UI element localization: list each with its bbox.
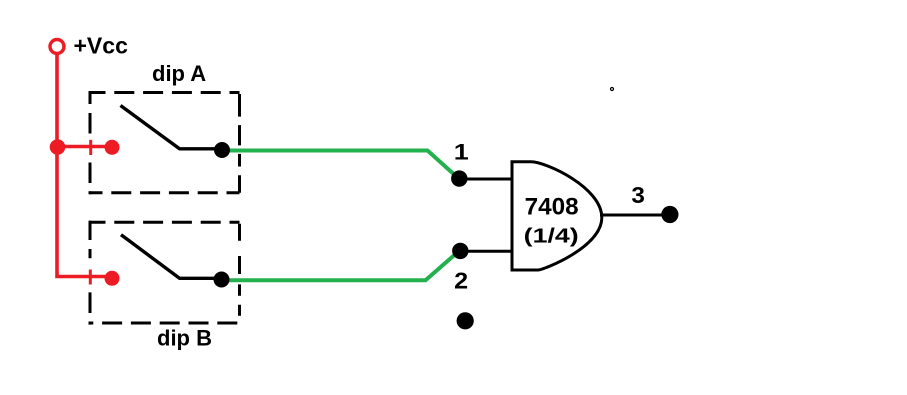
switch SW-A lever [121, 106, 223, 149]
dip A enclosure (dashed box) [89, 91, 240, 194]
node red dot A [105, 140, 120, 155]
svg-text:1: 1 [454, 140, 469, 165]
wire red vertical bus with bottom branch [57, 54, 112, 277]
svg-text:2: 2 [454, 268, 468, 294]
node pin 2 [452, 243, 468, 259]
wire input 1 [459, 178, 513, 181]
wire output 3 [600, 214, 670, 217]
tick red cross B [89, 270, 92, 285]
Vcc terminal (open circle) [50, 40, 64, 54]
svg-text:dip B: dip B [157, 326, 212, 351]
AND gate U1 (7408) body [512, 162, 602, 270]
node pin 1 [451, 170, 467, 186]
svg-text:7408: 7408 [525, 194, 579, 221]
svg-text:3: 3 [631, 182, 645, 208]
svg-text:(1/4): (1/4) [524, 226, 579, 248]
stray node dot [457, 312, 474, 329]
svg-text:+Vcc: +Vcc [74, 33, 129, 59]
dip B enclosure (dashed box) [89, 221, 240, 325]
tick red cross A [89, 140, 92, 155]
wire input 2 [460, 250, 513, 253]
node pin 3 [661, 206, 678, 223]
switch A contact node [214, 142, 230, 158]
tiny stray circle [611, 88, 614, 91]
wire green B [221, 255, 455, 281]
junction node red [50, 139, 66, 155]
wire green A [222, 151, 458, 178]
switch SW-B lever [121, 235, 222, 279]
switch B contact node [214, 272, 230, 288]
svg-text:dip A: dip A [152, 61, 206, 86]
node red dot B [105, 271, 120, 286]
wire red branch A [56, 145, 113, 148]
